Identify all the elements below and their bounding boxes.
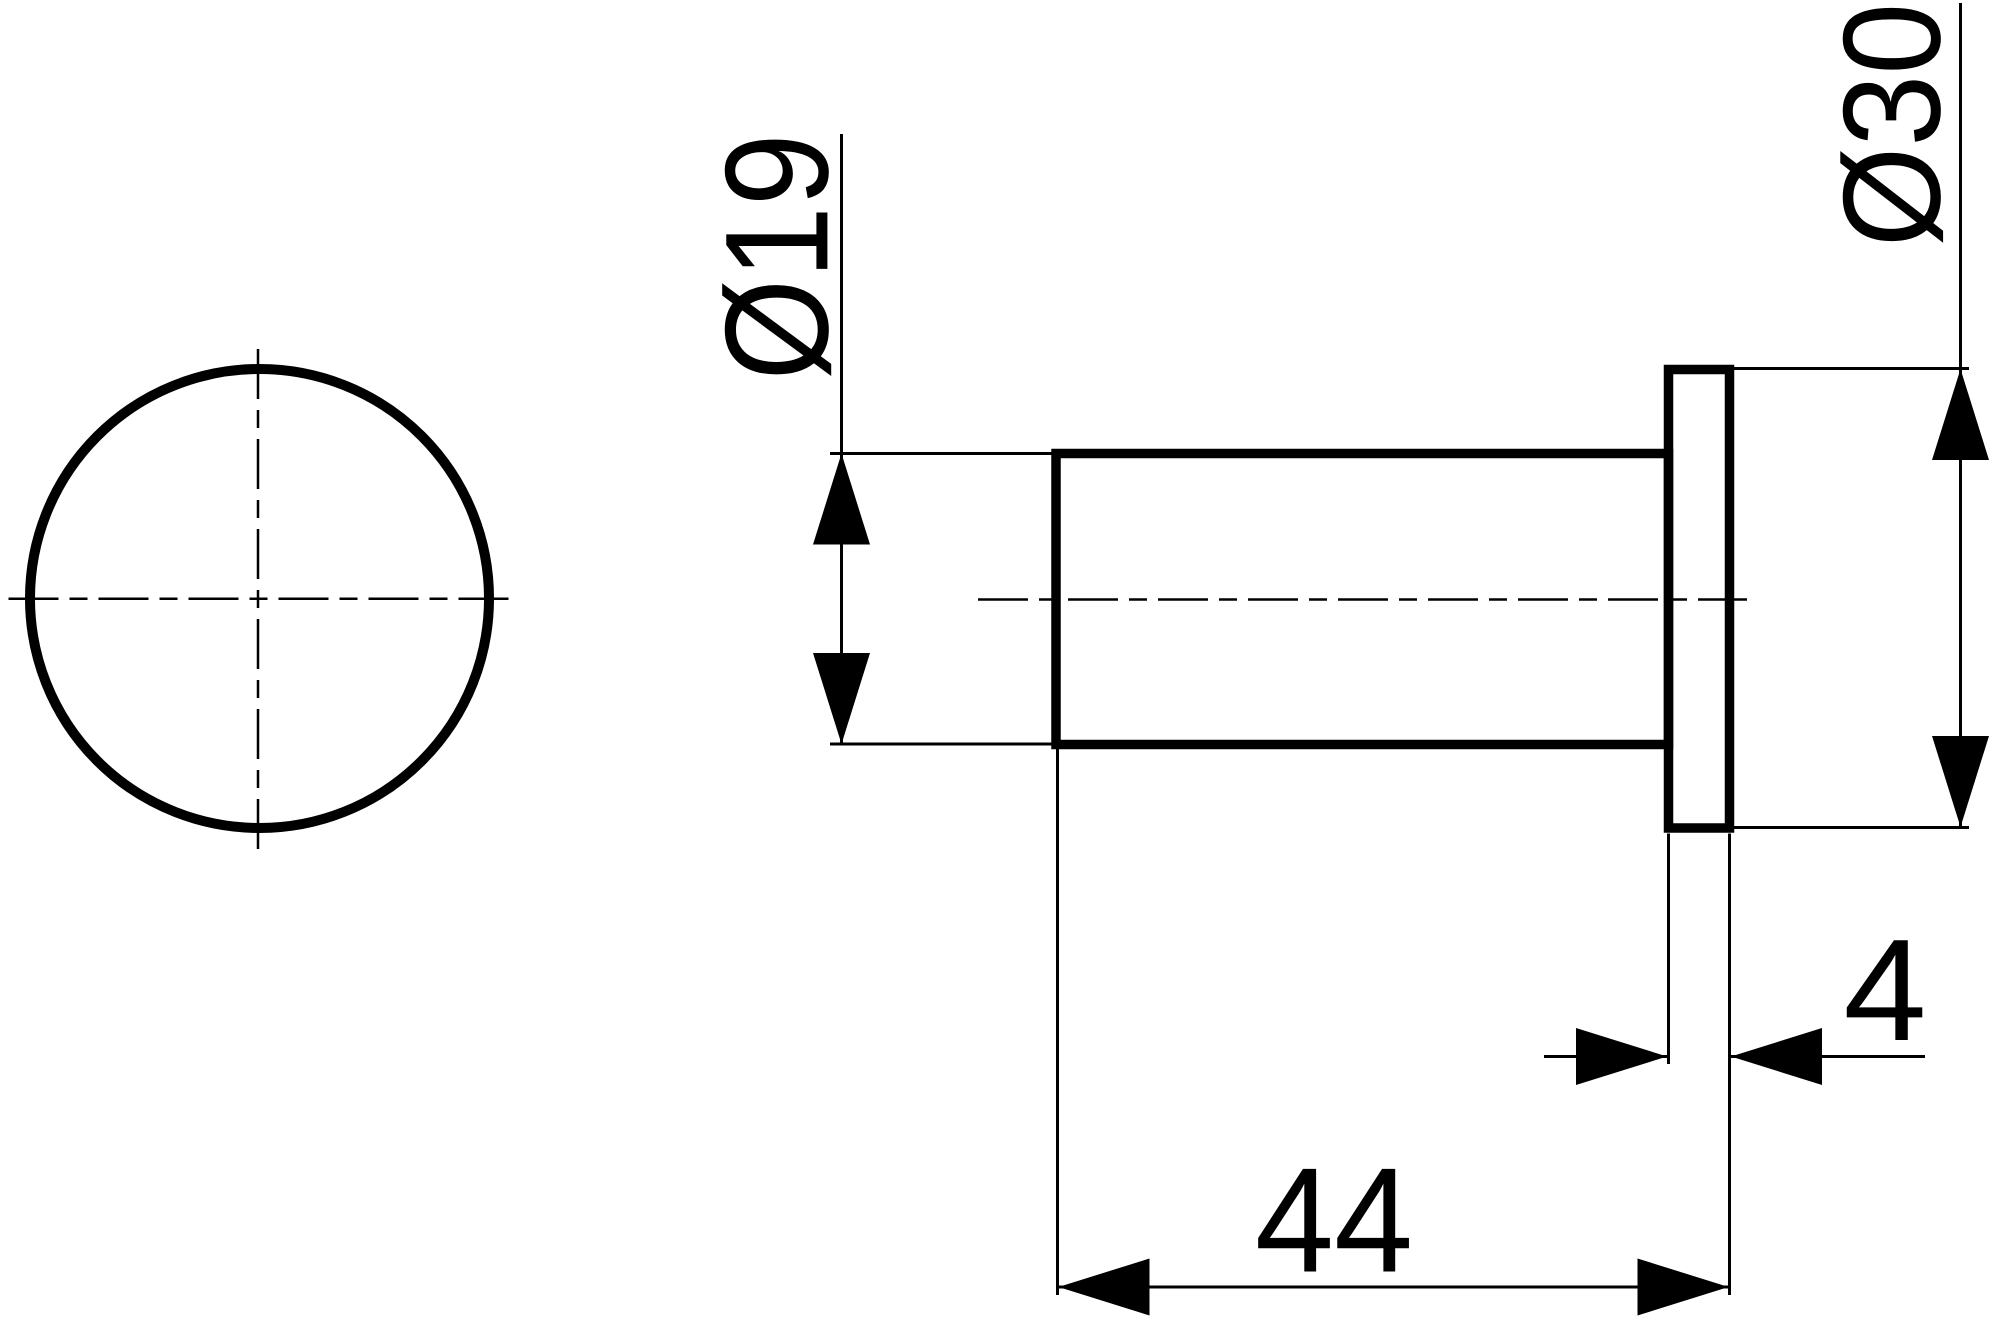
arrow Ø19 down — [813, 653, 870, 744]
front view circle Ø30 — [30, 369, 489, 828]
arrow 4 pointing left — [1731, 1028, 1822, 1085]
extension line Ø30 bottom — [1734, 826, 1969, 829]
extension line 4 left — [1667, 834, 1670, 1065]
extension line Ø19 bottom — [830, 743, 1056, 746]
arrow 4 pointing right — [1576, 1028, 1667, 1085]
arrow Ø30 up — [1932, 369, 1989, 460]
dimension line 44 — [1059, 1286, 1729, 1289]
svg-text:4: 4 — [1843, 910, 1926, 1071]
flange outline (side view) — [1669, 370, 1730, 829]
center line horizontal (front view) — [4, 598, 513, 601]
cylinder outline (side view) — [1056, 454, 1669, 745]
extension line flange right — [1728, 834, 1731, 1296]
arrow 44 pointing left — [1059, 1259, 1150, 1316]
svg-text:Ø19: Ø19 — [695, 133, 859, 380]
dimension line 4 right stub — [1730, 1055, 1925, 1058]
extension line 44 left — [1056, 749, 1059, 1295]
svg-text:Ø30: Ø30 — [1815, 3, 1969, 247]
extension line Ø30 top — [1734, 367, 1969, 370]
extension line Ø19 top — [830, 452, 1056, 455]
arrow 44 pointing right — [1638, 1259, 1729, 1316]
dimension line 4 left stub — [1544, 1055, 1668, 1058]
center line vertical (front view) — [257, 344, 260, 859]
center line horizontal (side view) — [978, 598, 1747, 601]
dimension line Ø30 — [1959, 3, 1962, 827]
dimension line Ø19 — [840, 134, 843, 744]
arrow Ø30 down — [1932, 736, 1989, 827]
arrow Ø19 up — [813, 454, 870, 545]
svg-text:44: 44 — [1255, 1136, 1413, 1303]
